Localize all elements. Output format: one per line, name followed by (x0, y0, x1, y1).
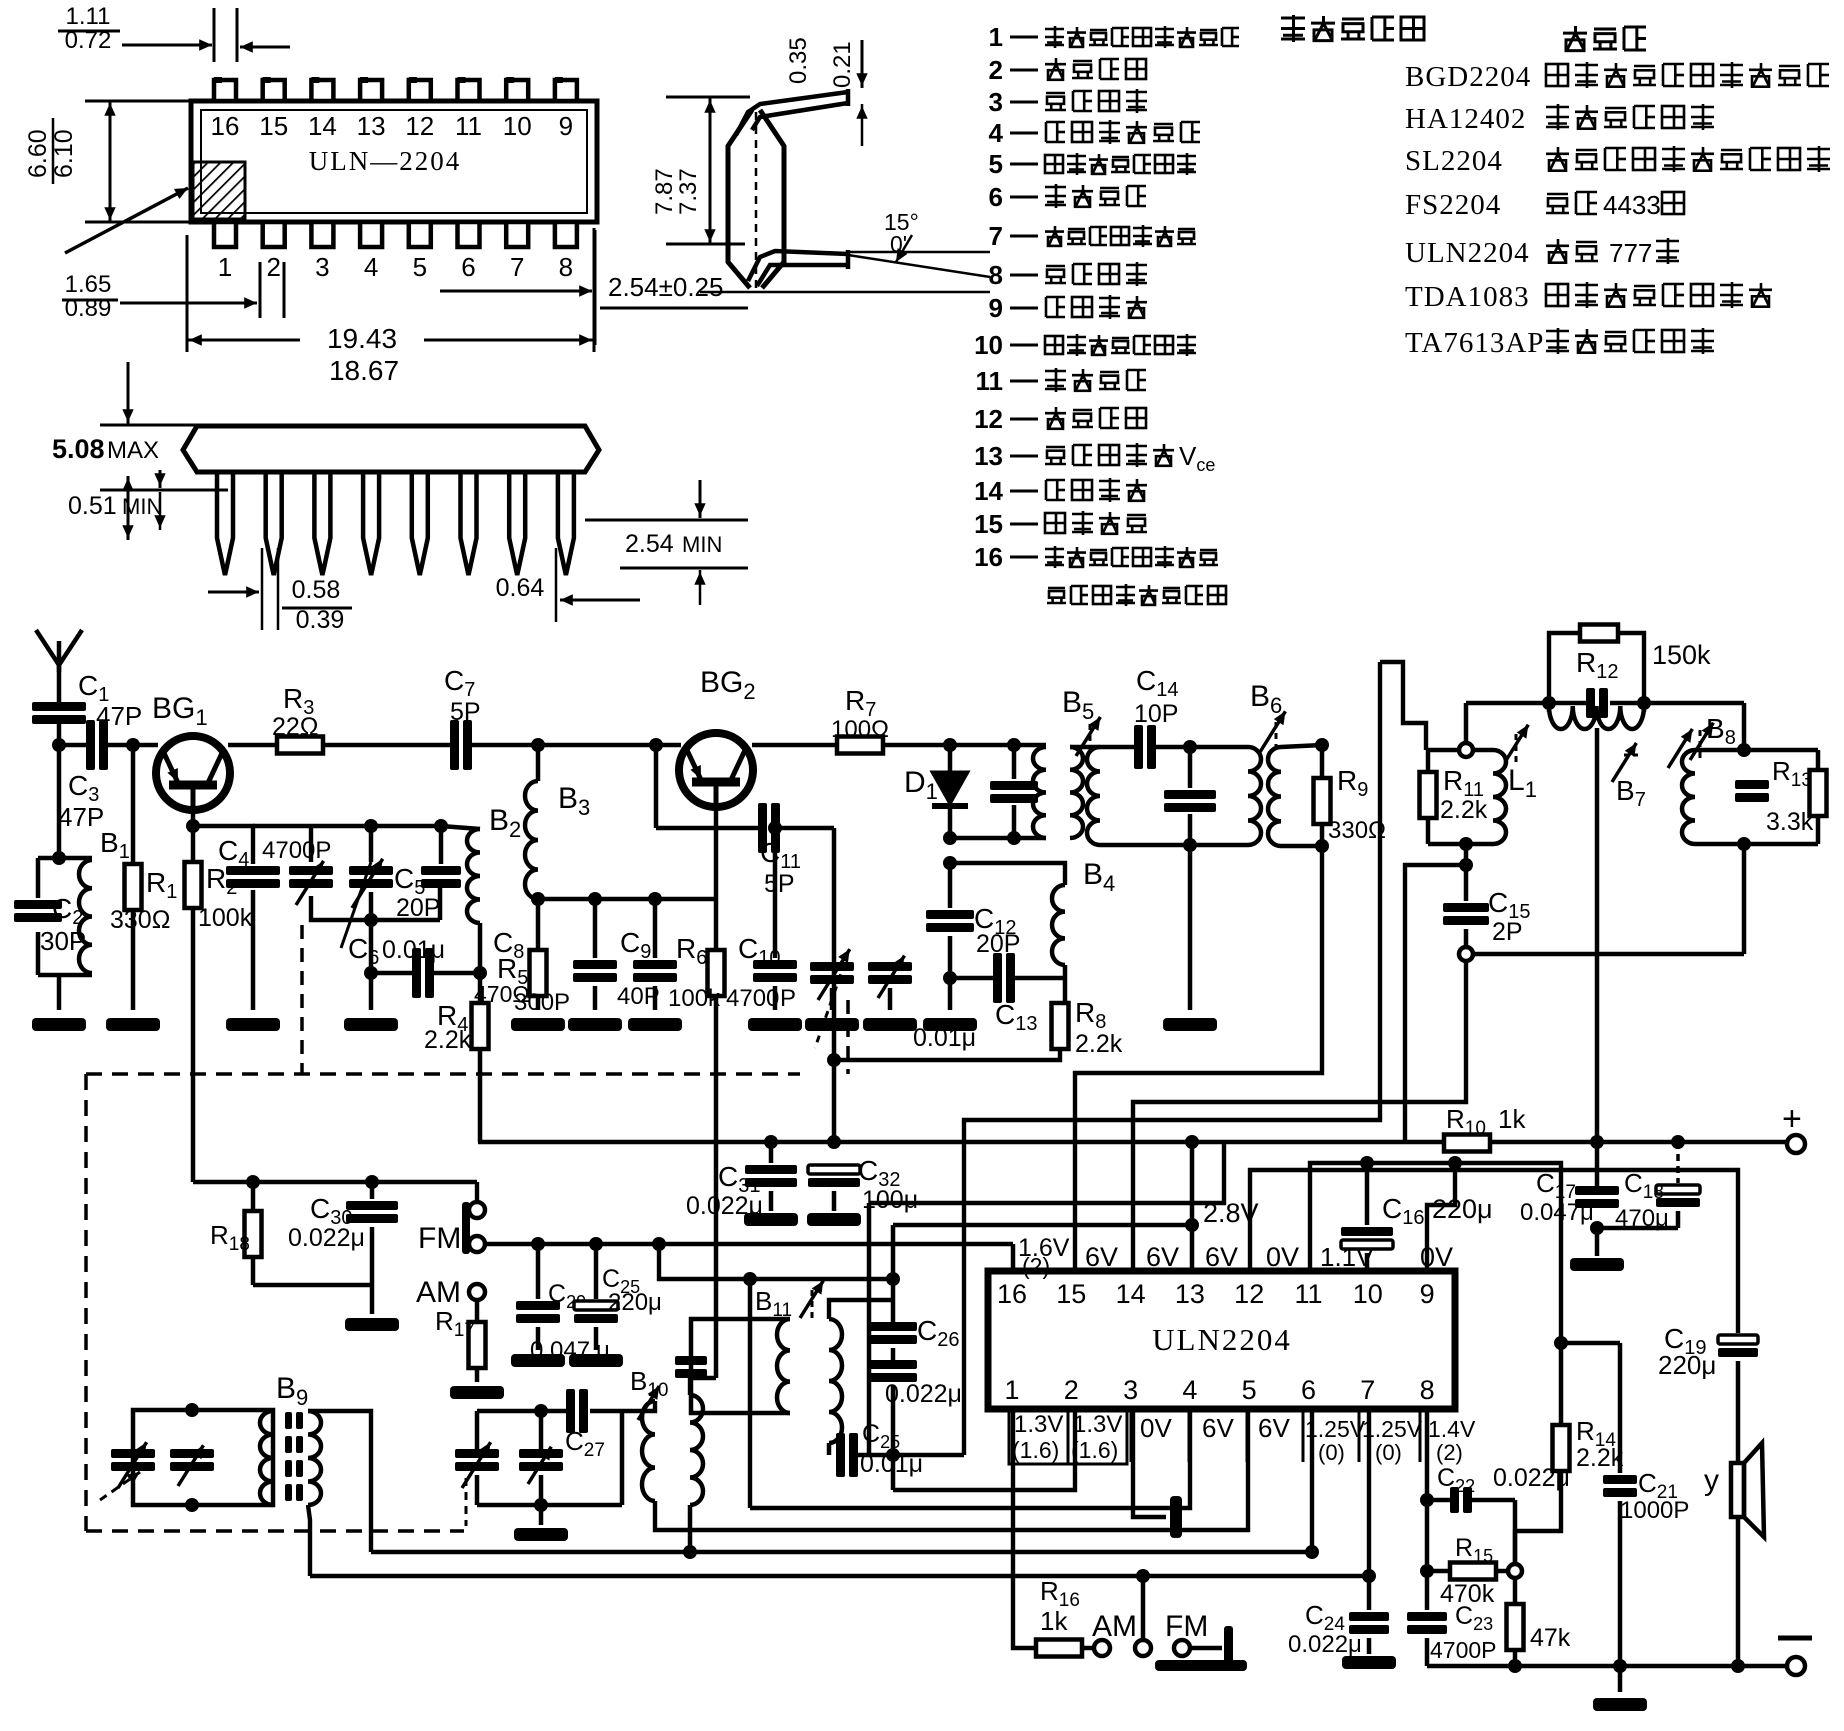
variable capacitor (170, 1449, 214, 1458)
svg-text:8: 8 (989, 260, 1003, 290)
gang dashed link (300, 925, 304, 1074)
svg-text:ULN—2204: ULN—2204 (309, 146, 462, 176)
wire pin8 chain (1426, 1271, 1428, 1409)
svg-text:1.4V: 1.4V (1428, 1416, 1476, 1442)
svg-text:6V: 6V (1202, 1413, 1234, 1443)
node (473, 966, 487, 980)
wire to bus (1405, 865, 1466, 1142)
wire to pin16 (1011, 1244, 1016, 1271)
wire (622, 1401, 655, 1411)
svg-text:14: 14 (974, 476, 1003, 506)
svg-text:330Ω: 330Ω (110, 906, 170, 934)
wire collector (228, 743, 277, 748)
wire pin3 chain (1133, 1409, 1166, 1517)
switch base bar (1155, 1660, 1247, 1671)
svg-text:47k: 47k (1530, 1624, 1571, 1652)
svg-text:470μ: 470μ (1615, 1205, 1669, 1232)
wire pin11 chain (1310, 1163, 1561, 1343)
capacitor C31 (769, 1140, 774, 1163)
node (364, 819, 378, 833)
ground (744, 1213, 798, 1226)
svg-text:2: 2 (989, 55, 1003, 85)
capacitor (1188, 747, 1193, 788)
capacitor C2 (14, 900, 62, 909)
contact FM (1174, 1640, 1190, 1656)
transformer B6 right (1268, 747, 1281, 846)
capacitor (1586, 688, 1595, 718)
svg-text:3.3k: 3.3k (1766, 808, 1814, 836)
resistor R18 (251, 1182, 256, 1211)
svg-text:13: 13 (357, 111, 386, 141)
capacitor C26 (891, 1225, 896, 1322)
wire B9 top chain (308, 1411, 371, 1552)
svg-text:FS2204: FS2204 (1405, 189, 1501, 221)
resistor R4 (472, 1003, 489, 1049)
svg-text:0.01μ: 0.01μ (860, 1450, 923, 1478)
center tap wire (1595, 728, 1600, 1186)
node (1136, 1569, 1150, 1583)
top pin 14 (311, 80, 333, 101)
node (886, 1448, 900, 1462)
resistor R13 (1816, 750, 1821, 770)
bottom pin 3 (311, 222, 333, 247)
svg-text:0.58: 0.58 (292, 576, 341, 604)
capacitor C17 (1575, 1186, 1619, 1195)
svg-text:9: 9 (1420, 1279, 1435, 1309)
svg-text:15: 15 (1056, 1279, 1086, 1309)
contact circle (1508, 1564, 1522, 1578)
svg-text:6: 6 (461, 252, 475, 282)
svg-text:5: 5 (989, 149, 1003, 179)
resistor R17 (475, 1300, 480, 1322)
svg-text:ULN2204: ULN2204 (1152, 1322, 1292, 1357)
front view pin 1 (217, 473, 233, 575)
wire (1100, 843, 1248, 848)
wire 2.8V row (893, 1223, 1192, 1228)
svg-text:3: 3 (989, 87, 1003, 117)
svg-text:15: 15 (974, 509, 1003, 539)
wire W16 chain (964, 662, 1380, 1455)
svg-text:0.022μ: 0.022μ (288, 1224, 365, 1252)
ratio detector coil (1549, 706, 1644, 729)
svg-text:12: 12 (974, 404, 1003, 434)
svg-text:2.54: 2.54 (625, 530, 674, 558)
front view pin 2 (266, 473, 282, 575)
ground (568, 1018, 622, 1031)
node (531, 1237, 545, 1251)
svg-text:(1.6): (1.6) (1071, 1437, 1118, 1463)
svg-text:7: 7 (989, 221, 1003, 251)
wire (1464, 844, 1469, 865)
node (1613, 1659, 1627, 1673)
svg-text:1: 1 (1004, 1375, 1019, 1405)
capacitor C7 (450, 720, 459, 770)
ground (807, 1213, 861, 1226)
front view pin 3 (314, 473, 330, 575)
wire (538, 897, 716, 902)
svg-text:40P: 40P (617, 983, 660, 1010)
ground pin3 (1170, 1496, 1182, 1538)
transistor BG2 (679, 733, 753, 807)
coil B1 (79, 860, 92, 973)
separator (1358, 1412, 1361, 1462)
coil B2 (467, 829, 480, 923)
svg-text:14: 14 (308, 111, 337, 141)
switch bar (1224, 1626, 1233, 1666)
L1 tuning arrow (1505, 725, 1528, 762)
wire osc top (253, 824, 441, 829)
front view pin 7 (509, 473, 525, 575)
IC ULN2204 (988, 1271, 1455, 1409)
svg-text:0.64: 0.64 (496, 574, 545, 602)
tuning arrows B7 (1612, 743, 1636, 782)
osc tank box (309, 826, 313, 862)
separator (1188, 1412, 1191, 1462)
contact AM (1082, 1646, 1094, 1651)
coil B4 (950, 863, 1065, 885)
svg-text:6V: 6V (1258, 1413, 1290, 1443)
node (186, 819, 200, 833)
wire (1188, 845, 1193, 1010)
wire B11 right edge up (748, 1279, 753, 1319)
front view pin 8 (558, 473, 574, 575)
svg-text:2.2k: 2.2k (424, 1026, 472, 1054)
antenna (57, 665, 62, 710)
wire R8 link (834, 1049, 1060, 1060)
svg-text:0.39: 0.39 (296, 606, 345, 634)
top pin 12 (409, 80, 431, 101)
capacitor C32 electrolytic (808, 1165, 860, 1174)
svg-text:4433: 4433 (1603, 190, 1661, 220)
resistor R1 (131, 745, 136, 864)
capacitor C24 (1367, 1576, 1372, 1610)
capacitor (675, 1356, 707, 1365)
svg-text:0V: 0V (1140, 1413, 1172, 1443)
coil tank right (1248, 747, 1261, 845)
svg-text:2: 2 (266, 252, 280, 282)
wire (1742, 703, 1747, 750)
wire B10 right bottom (688, 1505, 693, 1552)
node (827, 1053, 841, 1067)
svg-text:9: 9 (559, 111, 573, 141)
svg-text:BGD2204: BGD2204 (1405, 61, 1531, 93)
svg-text:ULN2204: ULN2204 (1405, 237, 1530, 269)
capacitor C23 (1425, 1571, 1430, 1610)
top pin 9 (555, 80, 577, 101)
svg-text:(1.6): (1.6) (1012, 1437, 1059, 1463)
index arrow (65, 188, 188, 253)
wire (690, 1378, 716, 1395)
wire (1464, 703, 1469, 743)
variable capacitor (111, 1449, 155, 1458)
svg-text:0.51: 0.51 (68, 492, 117, 520)
svg-text:7.87: 7.87 (651, 168, 678, 215)
wire base bus (133, 743, 158, 748)
wire (323, 743, 450, 748)
gang dashed box (86, 1072, 800, 1076)
node (1183, 740, 1197, 754)
wire V869 (867, 1203, 872, 1455)
svg-text:47P: 47P (58, 802, 104, 832)
wire FM row (485, 1242, 1013, 1247)
switch FM (475, 1182, 479, 1202)
resistor R12 loop (1549, 633, 1580, 703)
transformer core B9 (285, 1412, 292, 1429)
wire (1063, 965, 1068, 1003)
svg-text:7: 7 (1360, 1375, 1375, 1405)
svg-text:MIN: MIN (682, 532, 722, 557)
svg-text:7.37: 7.37 (675, 168, 702, 215)
svg-text:6: 6 (989, 182, 1003, 212)
resistor R3 (277, 737, 323, 754)
tank box B11 (691, 1319, 750, 1413)
coil L1 (1493, 750, 1506, 844)
svg-text:2.2k: 2.2k (1440, 796, 1488, 824)
detector row wire (1466, 701, 1588, 706)
svg-text:19.43: 19.43 (327, 323, 397, 354)
svg-text:0.35: 0.35 (785, 37, 812, 84)
svg-text:6.60: 6.60 (24, 129, 52, 178)
ground (628, 1018, 682, 1031)
ground (106, 1018, 160, 1031)
IC package top view body (191, 101, 597, 222)
wire (827, 1443, 832, 1455)
svg-text:4700P: 4700P (262, 837, 331, 864)
svg-text:13: 13 (1175, 1279, 1205, 1309)
svg-text:0V: 0V (1266, 1242, 1299, 1272)
svg-text:6V: 6V (1146, 1242, 1179, 1272)
svg-text:5: 5 (1242, 1375, 1257, 1405)
wire (539, 1505, 544, 1525)
transformer B5 primary (1033, 747, 1046, 838)
wire B9 bottom chain (308, 1505, 310, 1576)
svg-text:0.21: 0.21 (829, 41, 856, 88)
wire (832, 828, 837, 1142)
ground (226, 1018, 280, 1031)
separator (1246, 1412, 1249, 1462)
ground (511, 1018, 565, 1031)
node (1731, 1659, 1745, 1673)
front view pin 4 (363, 473, 379, 575)
resistor R6 (714, 807, 719, 950)
wire (752, 743, 837, 748)
capacitor C16 (1365, 1163, 1370, 1225)
capacitor C9 (648, 892, 662, 906)
capacitor C22 (1427, 1498, 1450, 1503)
coil B1 tank (52, 851, 66, 865)
transformer B10 right (690, 1395, 703, 1505)
wire (370, 1285, 375, 1314)
gang dashed link (846, 1000, 850, 1074)
transformer B9 left (260, 1411, 273, 1505)
node (534, 1404, 548, 1418)
svg-text:4700: 4700 (726, 985, 779, 1012)
wire discr return (1473, 952, 1744, 957)
svg-text:P: P (780, 985, 796, 1012)
svg-text:220μ: 220μ (1658, 1350, 1716, 1380)
svg-text:12: 12 (405, 111, 434, 141)
node (943, 856, 957, 870)
svg-text:5P: 5P (450, 698, 481, 726)
tank box C27 (477, 1409, 566, 1414)
switch AM contact (469, 1284, 485, 1300)
svg-text:6: 6 (1301, 1375, 1316, 1405)
bottom pin 5 (409, 222, 431, 247)
wire (369, 973, 374, 1010)
wire pin5 chain (655, 1409, 1248, 1530)
node (764, 1135, 778, 1149)
node (943, 831, 957, 845)
svg-text:HA12402: HA12402 (1405, 103, 1526, 135)
svg-text:2.2k: 2.2k (1075, 1030, 1123, 1058)
power bus wire (478, 1140, 1455, 1145)
resistor R11 tank (1426, 748, 1493, 753)
node (743, 1272, 757, 1286)
svg-text:(2): (2) (1022, 1253, 1050, 1279)
coil B3 (536, 745, 541, 781)
svg-text:300P: 300P (514, 989, 570, 1016)
node (531, 892, 545, 906)
variable capacitor (289, 866, 333, 875)
svg-text:22Ω: 22Ω (272, 713, 319, 741)
variable capacitor (868, 962, 912, 971)
gang dashed tail (465, 1478, 468, 1526)
svg-text:3: 3 (315, 252, 329, 282)
node (1508, 1659, 1522, 1673)
svg-text:0.047μ: 0.047μ (1520, 1199, 1594, 1226)
wire (949, 838, 951, 863)
coil B11 left (777, 1319, 790, 1413)
svg-text:5.08: 5.08 (52, 434, 105, 464)
table header 可代用型号 (1281, 17, 1305, 20)
transformer B5 secondary (1070, 747, 1083, 838)
wire 1203 row (869, 1142, 1224, 1203)
bottom pin 4 (360, 222, 382, 247)
svg-text:220μ: 220μ (1432, 1194, 1493, 1224)
resistor 47k (1513, 1578, 1518, 1604)
wire (948, 978, 953, 1010)
ground (569, 1354, 623, 1367)
capacitor C5 (434, 819, 448, 833)
capacitor C14 (1100, 745, 1134, 750)
node (1305, 1545, 1319, 1559)
svg-text:10: 10 (974, 330, 1003, 360)
bottom pin 8 (555, 222, 577, 247)
node (52, 738, 66, 752)
svg-text:6V: 6V (1085, 1242, 1118, 1272)
svg-text:0.022μ: 0.022μ (885, 1380, 962, 1408)
resistor R9 (1320, 745, 1325, 778)
wire (1736, 1517, 1741, 1666)
svg-text:0.01μ: 0.01μ (382, 936, 445, 964)
node (1448, 1156, 1462, 1170)
node (1185, 1218, 1199, 1232)
svg-text:13: 13 (974, 441, 1003, 471)
svg-text:2.2k: 2.2k (1576, 1444, 1624, 1472)
wire row 1279 (659, 1244, 893, 1279)
svg-text:1.11: 1.11 (66, 3, 111, 30)
ground (450, 1386, 504, 1399)
wire pin13 (1190, 1142, 1195, 1271)
svg-text:1: 1 (989, 22, 1003, 52)
capacitor C15 (1464, 865, 1469, 901)
capacitor C29 (536, 1244, 541, 1299)
wire pin12 chain (1250, 1170, 1738, 1333)
node (1542, 696, 1556, 710)
svg-text:18.67: 18.67 (329, 355, 399, 386)
svg-text:11: 11 (1294, 1279, 1322, 1309)
ground (32, 1018, 86, 1031)
ground (1163, 1018, 1217, 1031)
svg-text:4700P: 4700P (1430, 1637, 1497, 1663)
svg-text:4: 4 (1182, 1375, 1197, 1405)
svg-text:330Ω: 330Ω (1328, 817, 1386, 844)
wire R11 tank feed (1380, 662, 1426, 750)
wire C4 branch (193, 826, 253, 864)
switch common (1141, 1576, 1146, 1640)
resistor R2 (191, 826, 196, 862)
capacitor C4 (226, 866, 280, 875)
resistor R7 (837, 737, 883, 754)
svg-text:150k: 150k (1652, 640, 1711, 670)
transformer B9 right (308, 1411, 321, 1505)
svg-text:3: 3 (1123, 1375, 1138, 1405)
node (943, 738, 957, 752)
resistor R15 (1425, 1500, 1430, 1571)
svg-text:1.3V: 1.3V (1073, 1411, 1122, 1438)
coil B8 (1682, 750, 1695, 844)
svg-text:16: 16 (997, 1279, 1027, 1309)
svg-text:7: 7 (510, 252, 524, 282)
svg-text:11: 11 (976, 366, 1004, 396)
wire (1281, 745, 1322, 747)
svg-text:0.022μ: 0.022μ (1288, 1631, 1362, 1658)
ground (344, 1018, 398, 1031)
svg-text:6V: 6V (1205, 1242, 1238, 1272)
svg-text:SL2204: SL2204 (1405, 145, 1503, 177)
wire pin1 chain (1013, 1409, 1036, 1648)
capacitor C18 electrolytic (1676, 1142, 1680, 1183)
capacitor C3 (59, 743, 86, 748)
svg-text:10: 10 (503, 111, 532, 141)
svg-text:16: 16 (974, 542, 1003, 572)
diode D1 (948, 745, 953, 772)
ground (1595, 1228, 1600, 1256)
svg-text:4: 4 (989, 118, 1004, 148)
coil tank left (1087, 747, 1100, 845)
node (1420, 1493, 1434, 1507)
resistor R8 (1052, 1003, 1069, 1049)
svg-text:1.65: 1.65 (65, 271, 112, 298)
B8 tank wires (1695, 748, 1818, 753)
svg-text:0.022μ: 0.022μ (1493, 1464, 1570, 1492)
node (1737, 743, 1751, 757)
ground (923, 1018, 977, 1031)
capacitor C13 (950, 976, 993, 981)
variable capacitor (455, 1449, 499, 1458)
node (1590, 1221, 1604, 1235)
wire (193, 1180, 477, 1185)
wire (1742, 846, 1747, 954)
svg-text:2: 2 (1064, 1375, 1079, 1405)
svg-text:4: 4 (364, 252, 378, 282)
transformer B10 left (642, 1401, 655, 1501)
wire (950, 836, 1046, 841)
wire pin4 chain (750, 1409, 1190, 1508)
front view pin 5 (412, 473, 428, 575)
svg-text:20P: 20P (396, 894, 440, 922)
svg-text:FM: FM (1165, 1610, 1208, 1643)
